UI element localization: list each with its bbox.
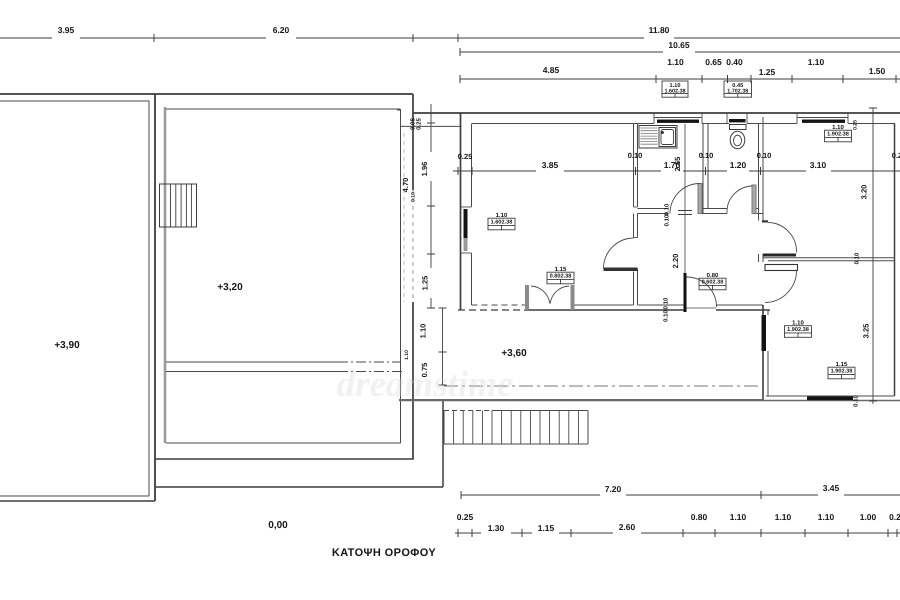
svg-text:2.60: 2.60 xyxy=(619,522,636,532)
svg-text:+3,20: +3,20 xyxy=(217,282,243,293)
bedroom1 door swing xyxy=(768,223,797,253)
left room inner east wall xyxy=(148,101,150,496)
roof break lines in +3.20 room xyxy=(166,361,338,363)
svg-text:0.10: 0.10 xyxy=(411,192,417,202)
svg-text:11.80: 11.80 xyxy=(649,25,670,35)
svg-text:0.10: 0.10 xyxy=(663,310,670,322)
bedroom2 door leaf xyxy=(765,265,798,271)
left room (+3.90) inner north wall xyxy=(0,100,149,102)
dimension row 2 (10.65) xyxy=(460,51,663,53)
kitchen window xyxy=(654,117,702,119)
wc/bedroom wall xyxy=(758,124,760,214)
svg-text:0.80: 0.80 xyxy=(691,512,708,522)
bottom dim row 1 (7.20 / 3.45) xyxy=(461,494,600,496)
svg-text:1.25: 1.25 xyxy=(421,276,430,291)
terrace / annex bottom outer line xyxy=(399,400,900,402)
window schedule box (north wc window) xyxy=(724,81,752,97)
living door leaf xyxy=(604,268,638,272)
svg-text:+3,90: +3,90 xyxy=(54,340,80,351)
living door swing xyxy=(604,238,634,269)
svg-text:1.602.38: 1.602.38 xyxy=(491,220,513,226)
svg-text:3.20: 3.20 xyxy=(860,185,869,200)
divider wall between rooms xyxy=(154,94,156,501)
living/hall divider wall xyxy=(633,214,635,238)
svg-text:1.20: 1.20 xyxy=(730,160,747,170)
svg-text:0.2: 0.2 xyxy=(889,512,900,522)
bedroom window xyxy=(797,117,848,119)
bedroom divider wall dark cap xyxy=(763,254,796,257)
kitchen south wall xyxy=(638,208,669,210)
svg-text:3.25: 3.25 xyxy=(862,324,871,339)
small roof stair xyxy=(160,184,197,227)
kitchen/wc wall xyxy=(702,124,704,214)
toilet bowl xyxy=(730,131,745,149)
svg-text:1.10: 1.10 xyxy=(775,512,792,522)
svg-text:7.20: 7.20 xyxy=(605,484,622,494)
svg-text:1.15: 1.15 xyxy=(538,523,555,533)
svg-text:1.902.38: 1.902.38 xyxy=(787,327,809,333)
toilet tank xyxy=(730,125,747,130)
svg-text:0.10: 0.10 xyxy=(663,297,670,309)
svg-text:0.40: 0.40 xyxy=(726,57,743,67)
svg-text:1.10: 1.10 xyxy=(667,57,684,67)
svg-text:ΚΑΤΟΨΗ ΟΡΟΦΟΥ: ΚΑΤΟΨΗ ΟΡΟΦΟΥ xyxy=(332,547,436,559)
svg-text:0.25: 0.25 xyxy=(853,120,859,130)
left room bottom walls xyxy=(0,495,149,497)
right room (+3.20) inner north wall xyxy=(166,108,400,110)
svg-text:0.10: 0.10 xyxy=(757,151,772,160)
main north wall inner xyxy=(472,123,654,125)
right room west wall (grey band) xyxy=(164,107,167,443)
french door swings xyxy=(531,286,550,304)
svg-text:0.10: 0.10 xyxy=(853,395,860,407)
svg-text:0.25: 0.25 xyxy=(457,512,474,522)
svg-text:1.96: 1.96 xyxy=(420,162,429,177)
svg-text:0.25: 0.25 xyxy=(458,152,473,161)
svg-text:4.85: 4.85 xyxy=(543,65,560,75)
kitchen sink unit xyxy=(639,126,677,149)
west window leaf xyxy=(464,209,468,238)
right room inner east wall xyxy=(400,109,402,443)
vertical dim chain A xyxy=(430,104,432,152)
svg-text:dreamstime: dreamstime xyxy=(337,364,514,405)
svg-text:0.802.38: 0.802.38 xyxy=(550,274,572,280)
svg-text:0,00: 0,00 xyxy=(268,520,288,531)
wc south wall xyxy=(702,208,727,210)
svg-text:1.00: 1.00 xyxy=(860,512,877,522)
faint scan watermark xyxy=(337,364,514,405)
main north wall outer xyxy=(413,112,900,114)
window schedule box (north kitchen window) xyxy=(662,81,688,97)
right room inner east wall top stub xyxy=(397,109,401,111)
right block bottom inner wall xyxy=(166,442,401,444)
svg-text:10.65: 10.65 xyxy=(668,40,690,50)
svg-text:0.10: 0.10 xyxy=(664,214,671,226)
terrace dash-dot line xyxy=(444,385,762,387)
dashed roof projection line xyxy=(403,133,405,302)
hall east wall stubs xyxy=(758,214,760,221)
wc window xyxy=(729,119,746,122)
svg-text:2.20: 2.20 xyxy=(671,254,680,269)
terrace solid line xyxy=(399,399,762,401)
left block outer east wall xyxy=(412,94,414,190)
bedroom divider wall xyxy=(763,257,895,259)
svg-text:3.85: 3.85 xyxy=(542,160,559,170)
dimension row 1 (3.95 / 6.20 / 11.80) xyxy=(0,37,52,39)
right block bottom outer wall xyxy=(155,458,414,460)
annex south window leaf xyxy=(807,397,853,401)
svg-text:0.2: 0.2 xyxy=(892,151,900,160)
svg-text:0.08: 0.08 xyxy=(410,118,417,130)
svg-text:0.10: 0.10 xyxy=(854,252,861,264)
svg-text:1.902.38: 1.902.38 xyxy=(831,369,853,375)
svg-text:+3,60: +3,60 xyxy=(501,348,527,359)
north wall secondary line xyxy=(400,125,462,127)
svg-text:1.10: 1.10 xyxy=(730,512,747,522)
kitchen west wall xyxy=(633,124,635,208)
svg-text:4.70: 4.70 xyxy=(401,178,410,193)
hall vertical dim line xyxy=(684,124,686,273)
svg-text:0.65: 0.65 xyxy=(705,57,722,67)
svg-text:1.10: 1.10 xyxy=(808,57,825,67)
annex west wall xyxy=(762,305,764,401)
annex bottom inner wall xyxy=(766,395,895,397)
svg-text:3.10: 3.10 xyxy=(810,160,827,170)
west wall outer xyxy=(460,113,462,310)
west window sills xyxy=(461,206,472,208)
bedroom1 door jamb cap xyxy=(762,220,768,222)
south wall solid parts xyxy=(574,304,634,306)
wc door swing xyxy=(727,186,753,214)
svg-text:3.45: 3.45 xyxy=(823,483,840,493)
kitchen door swing xyxy=(670,184,700,214)
dimension row 3 (4.85 / 1.10 / 0.65 / 0.40 / 1.25 / 1.10 / 1.50) xyxy=(460,78,900,80)
svg-text:0.10: 0.10 xyxy=(664,203,671,215)
svg-text:0.25: 0.25 xyxy=(416,118,423,130)
svg-text:1.10: 1.10 xyxy=(404,350,410,360)
svg-text:6.20: 6.20 xyxy=(273,25,290,35)
svg-text:0.602.38: 0.602.38 xyxy=(702,280,724,286)
svg-text:2.65: 2.65 xyxy=(673,157,682,172)
french door jambs xyxy=(525,285,529,310)
main stairs xyxy=(444,410,492,412)
kitchen door leaf xyxy=(698,184,702,214)
svg-text:1.25: 1.25 xyxy=(759,67,776,77)
svg-text:3.95: 3.95 xyxy=(58,25,75,35)
terrace lower boundary xyxy=(155,486,443,488)
east vertical dim line xyxy=(872,108,874,404)
svg-text:0.10: 0.10 xyxy=(628,151,643,160)
south entry door swing xyxy=(687,277,717,307)
svg-text:0.10: 0.10 xyxy=(699,151,714,160)
left block outer north wall xyxy=(0,93,413,95)
south wall (living, dashed part) xyxy=(472,304,526,306)
south entry door leaf xyxy=(684,273,687,312)
vertical dim chain B xyxy=(442,308,444,385)
bottom dim row 2 xyxy=(455,532,481,534)
west wall inner xyxy=(471,124,473,208)
svg-text:1.30: 1.30 xyxy=(488,523,505,533)
svg-text:1.10: 1.10 xyxy=(419,324,428,339)
bedroom2 door swing xyxy=(765,271,797,303)
svg-text:1.50: 1.50 xyxy=(869,66,886,76)
wc door leaf xyxy=(752,185,756,214)
annex west window leaf xyxy=(762,315,767,351)
interior dim line y=171 xyxy=(453,170,536,172)
svg-text:1.902.38: 1.902.38 xyxy=(827,132,849,138)
svg-text:1.10: 1.10 xyxy=(818,512,835,522)
east wall inner xyxy=(894,124,896,397)
